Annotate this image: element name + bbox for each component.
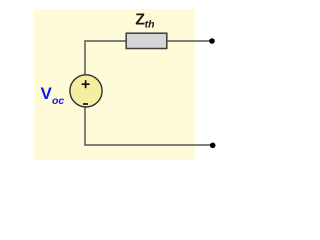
svg-text:V: V xyxy=(41,84,53,103)
svg-text:th: th xyxy=(145,19,155,31)
svg-text:oc: oc xyxy=(52,95,64,107)
